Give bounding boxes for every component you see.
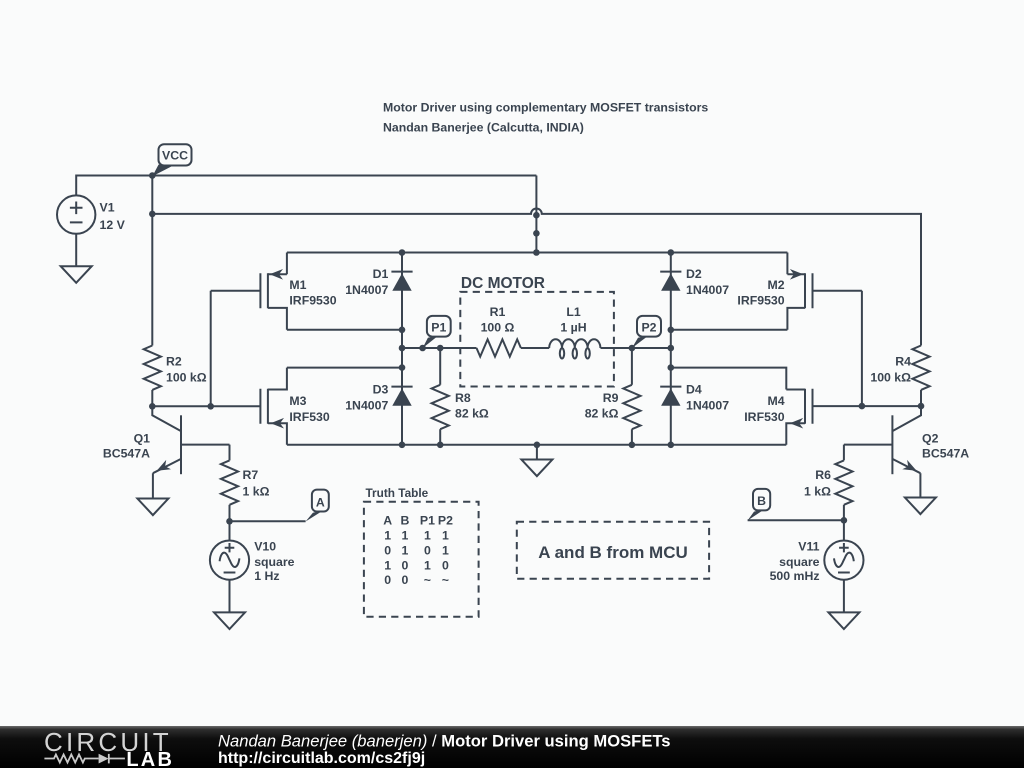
svg-text:1: 1 xyxy=(384,559,391,573)
junction dot D1 top xyxy=(399,249,406,256)
svg-text:1: 1 xyxy=(424,559,431,573)
svg-text:M2: M2 xyxy=(768,278,785,292)
wire M2 gate down xyxy=(861,291,863,406)
node P2 flag xyxy=(632,316,661,348)
wire V1 bottom xyxy=(75,234,77,266)
note dashed box A and B from MCU xyxy=(517,522,709,579)
transistor Q2 (NPN) xyxy=(844,406,921,497)
svg-text:B: B xyxy=(757,494,766,508)
junction dot D4 bottom xyxy=(668,442,675,449)
label D1 value xyxy=(345,267,388,297)
wire L1 to node P2 xyxy=(601,347,671,349)
svg-text:P2: P2 xyxy=(641,320,656,334)
diode D4 xyxy=(660,387,681,406)
svg-text:100 Ω: 100 Ω xyxy=(481,321,515,335)
label R4 value xyxy=(870,354,911,384)
ground center xyxy=(521,460,552,477)
svg-text:12 V: 12 V xyxy=(100,218,126,232)
junction dot VCC node xyxy=(149,172,156,179)
wire node A xyxy=(230,520,306,522)
wire M2 drain to node P2 xyxy=(671,329,788,331)
label V11 value xyxy=(770,539,820,583)
label M4 value xyxy=(744,394,784,424)
label R2 value xyxy=(166,354,207,384)
wire VCC node down to rail 2 xyxy=(151,176,153,214)
svg-text:R6: R6 xyxy=(815,468,831,482)
junction dot rail R9 xyxy=(629,442,636,449)
wire H-bridge top rail xyxy=(287,252,788,254)
junction dot P1 tail xyxy=(419,345,426,352)
svg-text:Nandan Banerjee (banerjen) / M: Nandan Banerjee (banerjen) / Motor Drive… xyxy=(218,731,671,750)
svg-text:1: 1 xyxy=(401,544,408,558)
junction dot D3 bottom xyxy=(399,442,406,449)
svg-text:R2: R2 xyxy=(166,354,182,368)
svg-text:D4: D4 xyxy=(686,383,702,397)
junction dot R4 bottom xyxy=(918,403,925,410)
wire right gate node xyxy=(813,405,922,407)
junction dot center a xyxy=(533,212,540,219)
label R6 value xyxy=(804,468,831,499)
voltage source V1 xyxy=(57,195,95,233)
svg-text:1: 1 xyxy=(401,528,408,542)
transistor M3 (NMOS) xyxy=(260,368,287,445)
CircuitLab logo LAB xyxy=(126,749,174,768)
svg-text:L1: L1 xyxy=(566,305,581,319)
svg-text:A and B from MCU: A and B from MCU xyxy=(538,543,688,562)
svg-text:500 mHz: 500 mHz xyxy=(770,569,820,583)
ground below V11 xyxy=(828,612,859,629)
diode D1 xyxy=(391,253,412,349)
CircuitLab logo text xyxy=(44,727,172,757)
wire center ground stub xyxy=(536,445,538,460)
svg-text:http://circuitlab.com/cs2fj9j: http://circuitlab.com/cs2fj9j xyxy=(218,750,425,767)
node VCC flag xyxy=(152,144,191,176)
wire left gate node xyxy=(152,405,260,407)
label D4 value xyxy=(686,383,729,413)
footer author title line xyxy=(218,731,671,750)
svg-text:square: square xyxy=(254,555,294,569)
junction dot rail center xyxy=(534,442,541,449)
svg-text:D1: D1 xyxy=(373,267,389,281)
voltage source V11 xyxy=(824,541,863,580)
svg-text:D2: D2 xyxy=(686,267,702,281)
svg-text:1: 1 xyxy=(384,528,391,542)
svg-text:P2: P2 xyxy=(438,513,453,527)
svg-text:R4: R4 xyxy=(895,354,911,368)
svg-text:M4: M4 xyxy=(768,394,785,408)
junction dot node A xyxy=(226,518,233,525)
wire M1 gate down xyxy=(210,291,212,407)
svg-text:DC MOTOR: DC MOTOR xyxy=(461,275,545,292)
diode D2 xyxy=(660,253,681,445)
ground below Q1 xyxy=(137,499,168,516)
junction dot P2 tail xyxy=(629,345,636,352)
junction dot P2 wire xyxy=(668,345,675,352)
junction dot P1 wire xyxy=(399,345,406,352)
svg-text:Nandan Banerjee (Calcutta, IND: Nandan Banerjee (Calcutta, INDIA) xyxy=(383,121,584,135)
svg-text:M3: M3 xyxy=(289,394,306,408)
svg-text:Q1: Q1 xyxy=(134,432,151,446)
svg-text:P1: P1 xyxy=(431,320,446,334)
transistor M2 (PMOS) xyxy=(787,253,862,330)
svg-text:IRF9530: IRF9530 xyxy=(737,294,784,308)
label D2 value xyxy=(686,267,729,297)
svg-text:1N4007: 1N4007 xyxy=(345,398,388,412)
resistor R8 xyxy=(432,348,449,445)
wire V10 bottom xyxy=(229,580,231,613)
svg-text:BC547A: BC547A xyxy=(103,446,150,460)
svg-text:82 kΩ: 82 kΩ xyxy=(455,407,489,421)
ground below Q2 xyxy=(905,498,936,515)
svg-text:VCC: VCC xyxy=(162,149,188,163)
svg-text:0: 0 xyxy=(442,559,449,573)
svg-text:R9: R9 xyxy=(603,391,619,405)
label A and B from MCU xyxy=(538,543,688,562)
node A flag xyxy=(306,490,329,522)
label M2 value xyxy=(737,278,784,308)
svg-text:1 kΩ: 1 kΩ xyxy=(804,485,831,499)
junction dot rail2 left xyxy=(149,211,156,218)
svg-text:LAB: LAB xyxy=(126,749,174,768)
svg-text:Motor Driver using complementa: Motor Driver using complementary MOSFET … xyxy=(383,101,708,115)
resistor R9 xyxy=(623,348,640,445)
wire R6 to V11 xyxy=(843,520,845,540)
svg-text:0: 0 xyxy=(384,544,391,558)
transistor M1 (PMOS) xyxy=(211,253,287,330)
svg-text:0: 0 xyxy=(401,559,408,573)
label M3 value xyxy=(289,394,329,424)
svg-text:1 Hz: 1 Hz xyxy=(254,569,279,583)
inductor L1 xyxy=(549,339,600,358)
svg-text:A: A xyxy=(383,513,392,527)
svg-text:IRF530: IRF530 xyxy=(744,410,784,424)
svg-text:IRF530: IRF530 xyxy=(289,410,329,424)
svg-text:82 kΩ: 82 kΩ xyxy=(585,407,619,421)
wire VCC top rail xyxy=(152,175,536,177)
svg-text:M1: M1 xyxy=(289,278,306,292)
junction dot rail R8 xyxy=(437,442,444,449)
junction dot M2 gate join xyxy=(859,403,866,410)
junction dot node B xyxy=(841,517,848,524)
svg-text:V10: V10 xyxy=(254,539,276,553)
label R7 value xyxy=(243,468,270,499)
svg-text:D3: D3 xyxy=(373,383,389,397)
junction dot M1 gate join xyxy=(207,403,214,410)
junction dot center b xyxy=(533,230,540,237)
schematic title text line 1 xyxy=(383,101,708,115)
node B flag xyxy=(748,489,771,521)
svg-text:1: 1 xyxy=(424,528,431,542)
label L1 value xyxy=(560,305,586,335)
svg-text:1: 1 xyxy=(442,528,449,542)
svg-text:100 kΩ: 100 kΩ xyxy=(870,370,911,384)
junction dot R8 top xyxy=(437,345,444,352)
svg-text:0: 0 xyxy=(401,573,408,587)
label DC MOTOR xyxy=(461,275,545,292)
svg-text:A: A xyxy=(316,495,325,509)
label R8 value xyxy=(455,391,489,421)
node P1 flag xyxy=(423,316,451,348)
svg-text:~: ~ xyxy=(442,573,449,587)
label R1 value xyxy=(481,305,515,335)
junction dot D2 bottom xyxy=(668,327,675,334)
junction dot D3 top xyxy=(399,364,406,371)
svg-text:V1: V1 xyxy=(100,200,115,214)
svg-text:BC547A: BC547A xyxy=(922,446,969,460)
footer bar xyxy=(0,726,1024,768)
svg-text:~: ~ xyxy=(424,573,431,587)
resistor R6 xyxy=(835,445,852,521)
truth table content xyxy=(383,513,453,587)
svg-text:1N4007: 1N4007 xyxy=(345,283,388,297)
label R9 value xyxy=(585,391,619,421)
truth table dashed box xyxy=(364,502,479,617)
resistor R7 xyxy=(221,445,238,522)
svg-text:R8: R8 xyxy=(455,391,471,405)
svg-text:Truth Table: Truth Table xyxy=(366,486,429,500)
svg-text:B: B xyxy=(400,513,409,527)
junction dot D1 bottom xyxy=(399,327,406,334)
junction dot R2 bottom xyxy=(149,403,156,410)
wire R7 to V10 xyxy=(229,521,231,540)
resistor R1 xyxy=(477,339,550,356)
svg-text:0: 0 xyxy=(384,573,391,587)
wire VCC drop to bridge rail xyxy=(535,176,537,253)
label Q1 value xyxy=(103,432,150,461)
label D3 value xyxy=(345,383,388,413)
schematic title text line 2 xyxy=(383,121,584,135)
junction dot D2 top xyxy=(668,249,675,256)
transistor M4 (NMOS) xyxy=(671,368,813,445)
diode D3 xyxy=(391,348,412,445)
label Q2 value xyxy=(922,432,969,461)
svg-text:Q2: Q2 xyxy=(922,432,939,446)
wire V11 bottom xyxy=(843,580,845,613)
wire V1 top to VCC rail xyxy=(76,176,152,196)
footer url line xyxy=(218,750,425,767)
wire bottom rail xyxy=(287,444,786,446)
ground below V1 xyxy=(61,266,92,283)
wire node B xyxy=(748,519,844,521)
svg-text:IRF9530: IRF9530 xyxy=(289,294,336,308)
label M1 value xyxy=(289,278,336,308)
resistor R4 xyxy=(912,346,929,407)
svg-text:1N4007: 1N4007 xyxy=(686,398,729,412)
svg-text:100 kΩ: 100 kΩ xyxy=(166,370,207,384)
junction dot center c xyxy=(533,249,540,256)
CircuitLab logo squiggle xyxy=(44,754,125,764)
wire M3 drain to node P1 xyxy=(287,367,402,369)
svg-text:V11: V11 xyxy=(798,539,819,553)
svg-text:square: square xyxy=(779,555,819,569)
svg-text:0: 0 xyxy=(424,544,431,558)
svg-text:P1: P1 xyxy=(420,513,435,527)
svg-text:R7: R7 xyxy=(243,468,259,482)
ground below V10 xyxy=(214,612,245,629)
svg-text:1N4007: 1N4007 xyxy=(686,283,729,297)
svg-text:R1: R1 xyxy=(490,305,506,319)
label Truth Table xyxy=(366,486,429,500)
DC MOTOR dashed box xyxy=(460,292,614,387)
label V10 value xyxy=(254,539,294,583)
junction dot D4 top xyxy=(668,364,675,371)
svg-text:1 kΩ: 1 kΩ xyxy=(243,485,270,499)
resistor R2 xyxy=(144,214,161,406)
voltage source V10 xyxy=(210,541,249,580)
transistor Q1 (NPN) xyxy=(152,406,229,498)
label V1 value xyxy=(100,200,126,231)
svg-text:1 µH: 1 µH xyxy=(560,321,586,335)
wire node P1 to motor xyxy=(402,347,477,349)
wire rail 2 with hop to R4 xyxy=(152,208,921,345)
wire M1 drain to node P1 xyxy=(287,329,402,331)
svg-text:1: 1 xyxy=(442,544,449,558)
